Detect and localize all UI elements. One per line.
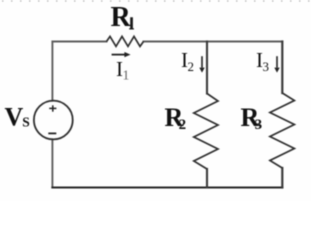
svg-text:V: V <box>5 102 24 131</box>
svg-text:2: 2 <box>188 59 195 74</box>
svg-text:1: 1 <box>122 69 129 84</box>
svg-text:S: S <box>22 114 30 129</box>
svg-text:2: 2 <box>179 117 187 133</box>
svg-text:3: 3 <box>263 59 270 74</box>
svg-text:3: 3 <box>255 117 263 133</box>
svg-text:R: R <box>111 2 132 33</box>
